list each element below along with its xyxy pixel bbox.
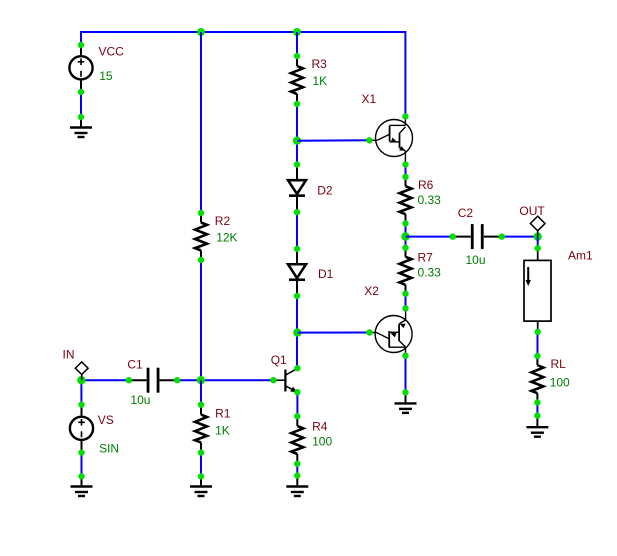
svg-text:10u: 10u [466, 253, 486, 267]
voltage source VS [70, 401, 93, 455]
svg-text:0.33: 0.33 [418, 193, 442, 207]
svg-text:100: 100 [550, 375, 570, 389]
wire VS minus to ground [81, 453, 83, 477]
node junction base-R1-R2 [197, 376, 205, 384]
label Q1 [271, 353, 287, 367]
node junction rail-R3 [293, 28, 301, 36]
value R7 0.33 [418, 266, 442, 280]
ground X2 [395, 389, 417, 413]
wire D2 to D1 [296, 212, 298, 249]
resistor R3 [291, 53, 303, 107]
svg-text:VCC: VCC [99, 45, 125, 59]
node IN diamond [75, 362, 88, 380]
wire R2 top [200, 32, 202, 213]
wire C2 to OUT node [502, 236, 538, 238]
ground VS [71, 473, 93, 496]
ground R4 [286, 472, 308, 496]
resistor R6 [400, 174, 412, 227]
node OUT diamond [530, 216, 545, 236]
svg-text:VS: VS [98, 413, 114, 427]
voltage source VCC [69, 42, 92, 95]
value RL 100 [550, 375, 570, 389]
svg-text:15: 15 [99, 69, 113, 83]
svg-text:R3: R3 [312, 57, 328, 71]
value R4 100 [312, 435, 332, 449]
diode D2 [288, 161, 306, 215]
transistor X1 (NPN darlington) [366, 113, 412, 167]
label R4 [312, 419, 328, 433]
svg-text:SIN: SIN [99, 442, 119, 456]
transistor X2 (PNP darlington) [366, 305, 412, 359]
wire R4 bottom to ground [296, 464, 298, 476]
value R1 1K [215, 424, 230, 438]
value C2 10u [466, 253, 486, 267]
label RL [551, 357, 567, 371]
label VS [98, 413, 114, 427]
svg-text:0.33: 0.33 [418, 266, 442, 280]
ground R1 [190, 473, 212, 496]
svg-text:D2: D2 [317, 184, 333, 198]
resistor RL [531, 353, 543, 406]
label D1 [318, 267, 334, 281]
wire R3 to D2 via X1-base node [296, 104, 298, 165]
ground VCC [70, 114, 92, 137]
label C1 [127, 358, 143, 372]
ammeter Am1 [524, 245, 551, 335]
node junction OUT [534, 232, 542, 240]
wire OUT to Am1 [537, 237, 539, 249]
wire X1 emitter to R6 [405, 165, 407, 177]
node junction X1 base [293, 137, 301, 145]
wire R3 top lead [296, 32, 298, 56]
capacitor C2 [450, 224, 505, 249]
svg-text:X2: X2 [364, 284, 379, 298]
label R6 [418, 178, 434, 192]
wire IN to C1 [81, 379, 128, 381]
wire R1 bottom to ground [200, 453, 202, 477]
svg-text:R6: R6 [418, 178, 434, 192]
wire R7 to X2 emitter [405, 294, 407, 309]
svg-text:Am1: Am1 [568, 249, 593, 263]
label X2 [364, 284, 379, 298]
node junction output tap [401, 232, 409, 240]
svg-text:X1: X1 [362, 92, 377, 106]
label R7 [418, 251, 434, 265]
value VS SIN [99, 442, 119, 456]
label X1 [362, 92, 377, 106]
svg-text:R2: R2 [215, 214, 231, 228]
wire X2 collector to ground [405, 356, 407, 393]
svg-text:1K: 1K [313, 74, 328, 88]
label VCC [99, 45, 125, 59]
svg-text:R4: R4 [312, 419, 328, 433]
capacitor C1 [126, 368, 181, 393]
resistor R4 [291, 413, 303, 467]
wire RL to ground [536, 403, 538, 416]
svg-text:100: 100 [312, 435, 332, 449]
svg-text:10u: 10u [130, 393, 150, 407]
wire IN node down to VS [80, 380, 82, 404]
wire R1 top [200, 380, 202, 405]
wire Am1 to RL [537, 332, 539, 356]
label IN [63, 347, 75, 361]
label D2 [317, 184, 333, 198]
label R3 [312, 57, 328, 71]
svg-text:C2: C2 [458, 206, 474, 220]
resistor R7 [400, 245, 412, 297]
svg-text:RL: RL [551, 357, 567, 371]
wire rail to X1 collector [404, 31, 406, 116]
svg-text:1K: 1K [215, 424, 230, 438]
value R2 12K [216, 230, 237, 244]
node junction IN [77, 376, 85, 384]
resistor R2 [195, 210, 207, 263]
wire top VCC rail [80, 31, 406, 45]
value C1 10u [130, 393, 150, 407]
value R6 0.33 [418, 193, 442, 207]
svg-text:12K: 12K [216, 230, 237, 244]
svg-text:Q1: Q1 [271, 353, 287, 367]
transistor Q1 (NPN) [270, 365, 300, 395]
resistor R1 [195, 402, 207, 456]
svg-text:D1: D1 [318, 267, 334, 281]
label C2 [458, 206, 474, 220]
label R2 [215, 214, 231, 228]
svg-text:R1: R1 [215, 406, 231, 420]
wire Q1 emitter to R4 [296, 392, 298, 416]
value R3 1K [313, 74, 328, 88]
svg-text:IN: IN [63, 347, 75, 361]
wire R6 to R7 output node [405, 223, 407, 247]
diode D1 [288, 246, 306, 299]
wire VCC minus to ground [80, 92, 82, 117]
svg-text:OUT: OUT [519, 204, 545, 218]
label R1 [215, 406, 231, 420]
value 15 [99, 69, 113, 83]
wire D1 to Q1 collector [296, 296, 298, 368]
svg-text:R7: R7 [418, 251, 434, 265]
wire C1 to Q1 base [177, 379, 273, 381]
wire output tap to C2 [406, 236, 453, 238]
svg-text:C1: C1 [127, 358, 143, 372]
ground RL [526, 412, 548, 436]
label Am1 [568, 249, 593, 263]
label OUT [519, 204, 545, 218]
wire X1 base [297, 139, 369, 141]
wire X2 base [297, 332, 369, 334]
wire R2 bottom to input node [200, 260, 202, 380]
node junction rail-R2 [197, 28, 205, 36]
node junction X2 base [293, 328, 301, 336]
